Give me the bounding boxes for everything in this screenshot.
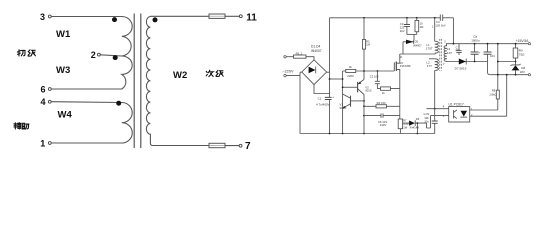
- D5 row wire: [403, 41, 414, 43]
- winding W4: [122, 103, 132, 144]
- svg-text:901A: 901A: [340, 106, 347, 110]
- svg-text:0.20: 0.20: [403, 122, 409, 126]
- svg-text:1000u: 1000u: [471, 39, 480, 43]
- T1 winding L1: [435, 41, 439, 54]
- startup bias wire: [330, 78, 343, 80]
- svg-text:11: 11: [246, 12, 257, 23]
- svg-text:7: 7: [443, 62, 445, 66]
- junction dot emitter column: [506, 74, 508, 76]
- svg-text:230V: 230V: [380, 123, 387, 127]
- svg-text:1: 1: [432, 25, 434, 29]
- L2 top stub: [429, 58, 435, 60]
- capacitor C10a plates: [432, 121, 438, 123]
- V3 collector with arrow: [358, 80, 364, 85]
- svg-text:1k: 1k: [382, 91, 386, 95]
- svg-text:6: 6: [40, 85, 45, 95]
- secondary top rail: [446, 43, 528, 45]
- svg-text:75Ω: 75Ω: [519, 52, 525, 56]
- L3 top stub: [446, 44, 448, 46]
- wire to pin7 terminal: [225, 145, 239, 147]
- junction dot rail D6: [417, 133, 419, 135]
- wire bridge minus drop: [299, 76, 301, 134]
- C8 row: [364, 115, 400, 117]
- junction dot D6: [417, 122, 419, 124]
- transistor V1 base bar: [350, 96, 352, 107]
- resistor R6: [381, 87, 391, 90]
- svg-text:+15V.5A: +15V.5A: [516, 39, 530, 43]
- junction dot R9 top: [515, 43, 517, 45]
- polarity dot W1: [112, 17, 117, 22]
- B+ riser / C1 column: [329, 18, 331, 134]
- C2 drop and R6 row: [377, 71, 399, 89]
- junction dot bus R5: [416, 17, 418, 19]
- gate row wire: [343, 70, 395, 72]
- svg-text:1.8kΩ: 1.8kΩ: [489, 92, 496, 96]
- bus C4 right segment: [443, 17, 454, 19]
- diode D7: [459, 59, 466, 65]
- svg-text:2200: 2200: [347, 74, 354, 78]
- svg-text:D: D: [400, 55, 402, 59]
- junction dot zener wire: [497, 61, 499, 63]
- C10 filter column: [488, 44, 491, 75]
- svg-text:7: 7: [245, 141, 251, 152]
- R2 column: [363, 18, 365, 80]
- opto pin1 wire: [470, 109, 498, 111]
- wire W2 bottom to pin7: [153, 145, 209, 147]
- resistor R7: [398, 119, 402, 129]
- junction dot V1 base row: [363, 100, 365, 102]
- svg-text:103 1kV: 103 1kV: [435, 24, 445, 28]
- svg-text:+: +: [332, 95, 334, 99]
- svg-text:R4 150: R4 150: [377, 101, 386, 105]
- junction dot bus T1: [434, 17, 436, 19]
- wire pin3 to W1: [51, 16, 122, 18]
- junction dot C8 row: [363, 115, 365, 117]
- junction dot D8: [515, 74, 517, 76]
- capacitor C2 plates: [375, 81, 380, 83]
- label 辅助: [14, 123, 29, 129]
- svg-text:C2 102: C2 102: [370, 75, 379, 79]
- label 次级: [206, 70, 223, 76]
- junction dot pin4: [434, 108, 436, 110]
- svg-text:D6: D6: [416, 117, 420, 121]
- junction dot C10 top: [487, 43, 489, 45]
- clamp C3 column: [406, 18, 408, 35]
- svg-text:2kV: 2kV: [400, 29, 405, 33]
- svg-text:~220V: ~220V: [282, 69, 294, 73]
- junction dot startup right: [342, 78, 344, 80]
- AC input terminal L: [284, 56, 286, 58]
- svg-text:4.7u/400V: 4.7u/400V: [316, 102, 330, 106]
- svg-text:W4: W4: [58, 109, 73, 120]
- capacitor C6 column: [458, 44, 460, 55]
- core line right: [140, 14, 142, 148]
- opto feedback column: [497, 44, 499, 110]
- junction dot bus C3: [406, 17, 408, 19]
- C4 coupling plates: [440, 15, 442, 21]
- C9 column: [474, 44, 476, 62]
- optocoupler U1 box: [449, 107, 470, 123]
- svg-text:18V: 18V: [520, 70, 525, 74]
- polarity dot W3: [113, 55, 118, 60]
- svg-text:+: +: [479, 50, 481, 54]
- R9 column: [515, 44, 517, 65]
- svg-text:3k: 3k: [349, 65, 352, 69]
- AC input terminal N: [284, 74, 286, 76]
- wire pin1: [51, 142, 122, 144]
- svg-text:14T: 14T: [447, 51, 452, 55]
- winding W3: [122, 56, 132, 89]
- svg-text:1W: 1W: [403, 125, 407, 129]
- wire pin2 tap: [100, 55, 122, 56]
- svg-text:103: 103: [455, 48, 460, 52]
- wire input to bridge left: [286, 72, 302, 75]
- resistor R2: [362, 40, 365, 50]
- winding W1: [122, 17, 132, 57]
- pin 2 terminal: [98, 53, 101, 56]
- R4a row: [364, 105, 400, 107]
- clamp to D5: [413, 34, 415, 39]
- transistor V3 base bar: [357, 82, 359, 93]
- polarity dot W4: [116, 101, 121, 106]
- capacitor C1 plates: [325, 97, 332, 99]
- svg-text:9013: 9013: [365, 89, 372, 93]
- junction dot zener top: [515, 61, 517, 63]
- resistor R1: [294, 55, 307, 58]
- capacitor C8 plates: [381, 114, 383, 118]
- wire pin4: [51, 101, 122, 104]
- D8 to rail: [515, 70, 517, 74]
- ferrite bead resistor at pin 11: [209, 14, 225, 18]
- V3 base wire: [343, 86, 358, 88]
- L3 bottom stub: [446, 60, 448, 62]
- wire bridge bottom jog: [314, 85, 330, 94]
- svg-text:2: 2: [444, 40, 446, 44]
- pin 4 terminal: [48, 100, 51, 103]
- bottom primary rail: [300, 133, 435, 135]
- opto LED: [461, 111, 468, 117]
- opto emitter column: [506, 75, 508, 117]
- capacitor C9 plates: [471, 52, 479, 54]
- V1 emitter with arrow: [343, 104, 351, 108]
- svg-text:1: 1: [40, 138, 45, 148]
- svg-text:W3: W3: [56, 65, 70, 76]
- diode D6: [409, 121, 415, 126]
- C4 riser to secondary: [452, 18, 454, 44]
- bridge inner diode: [309, 67, 316, 74]
- resistor R4a: [376, 105, 386, 108]
- svg-text:104: 104: [490, 54, 495, 58]
- output minus terminal: [528, 74, 530, 76]
- polarity dot W2: [153, 17, 158, 22]
- MOSFET source lead: [396, 69, 400, 119]
- svg-text:1M: 1M: [420, 25, 425, 29]
- junction dot bus R2: [363, 17, 365, 19]
- V1 base wire: [351, 100, 365, 102]
- svg-text:D7 5819: D7 5819: [455, 67, 467, 71]
- svg-text:W2: W2: [173, 70, 187, 81]
- svg-text:IN4007: IN4007: [311, 49, 322, 53]
- wire pin6: [51, 88, 122, 90]
- junction dot C9 top: [474, 43, 476, 45]
- wire input to R1: [286, 56, 293, 58]
- clamp R5 column: [416, 18, 418, 35]
- svg-text:4: 4: [40, 97, 45, 107]
- resistor R9: [513, 48, 518, 58]
- svg-text:170T: 170T: [426, 46, 433, 50]
- transformer T1 L1 riser: [434, 18, 436, 41]
- svg-text:W1: W1: [56, 29, 71, 40]
- junction dot rail C4 riser: [453, 43, 455, 45]
- pin 6 terminal: [48, 88, 51, 91]
- pin 11 terminal: [239, 15, 242, 18]
- zener top wire: [498, 61, 516, 63]
- core line left: [133, 14, 135, 148]
- diode D5: [406, 40, 413, 44]
- junction dot column top: [497, 43, 499, 45]
- wire R1 to bridge top: [306, 57, 314, 60]
- svg-text:2: 2: [91, 50, 96, 60]
- svg-text:4: 4: [443, 105, 445, 109]
- svg-text:U1 PC817: U1 PC817: [449, 102, 464, 106]
- svg-text:2SK1358: 2SK1358: [400, 64, 411, 68]
- opto phototransistor: [454, 110, 457, 119]
- D7 output wire: [446, 61, 487, 63]
- svg-text:D5: D5: [415, 39, 419, 43]
- D6 ground stub: [416, 123, 418, 133]
- svg-text:3: 3: [40, 12, 45, 22]
- left column V1: [342, 71, 344, 134]
- svg-text:IN4007: IN4007: [413, 44, 422, 48]
- wire W2 top to pin11: [150, 15, 209, 17]
- T1 winding L2: [435, 59, 439, 71]
- MOSFET V2 channel bar: [395, 61, 397, 71]
- opto pin3 wire: [427, 116, 449, 128]
- T1 core dashed: [440, 39, 442, 71]
- svg-text:17T: 17T: [427, 64, 432, 68]
- opto pin2 wire: [470, 115, 507, 117]
- winding W2: [146, 17, 153, 146]
- V3 emitter column: [363, 95, 365, 134]
- V3 emitter: [358, 89, 364, 95]
- svg-text:R7: R7: [403, 119, 407, 123]
- svg-text:R1 1: R1 1: [296, 51, 303, 55]
- pin 3 terminal: [48, 15, 51, 18]
- junction dot rail C1: [329, 133, 331, 135]
- svg-text:IN4148: IN4148: [410, 126, 420, 130]
- junction dot gate/R2: [363, 70, 365, 72]
- svg-text:C1: C1: [318, 96, 322, 100]
- secondary bottom rail: [490, 74, 528, 76]
- junction dot startup left: [329, 78, 331, 80]
- resistor R5: [415, 20, 419, 31]
- MOSFET V2 gate bar: [393, 62, 395, 71]
- junction dot R4a row: [363, 105, 365, 107]
- D6 row wire: [403, 123, 427, 128]
- output plus terminal: [528, 43, 530, 45]
- capacitor C3 plates: [404, 25, 410, 27]
- clamp bottom wire: [407, 33, 417, 35]
- svg-text:1M: 1M: [366, 43, 370, 47]
- top B+ bus: [330, 17, 441, 19]
- ferrite bead resistor at pin 7: [209, 143, 225, 147]
- drain node wire: [400, 42, 435, 54]
- junction dot V3 base: [342, 86, 344, 88]
- opto pin4 wire: [427, 108, 449, 110]
- label 初级: [17, 50, 35, 56]
- zener D8: [512, 65, 520, 70]
- T1 winding L3: [444, 46, 447, 62]
- MOSFET drain lead: [396, 54, 400, 63]
- pin 1 terminal: [48, 142, 51, 145]
- junction dot rail V3: [363, 133, 365, 135]
- resistor R8: [496, 90, 499, 99]
- junction dot gate/C2: [377, 70, 379, 72]
- aux column from L2: [434, 70, 436, 133]
- junction dot column rail: [497, 74, 499, 76]
- pin 7 terminal: [239, 144, 242, 147]
- capacitor C6 plates: [456, 51, 461, 53]
- R7 to rail: [399, 129, 401, 134]
- wire to pin11 terminal: [225, 15, 239, 17]
- resistor R4: [346, 69, 356, 72]
- V1 collector: [343, 94, 351, 98]
- junction dot C9 bottom: [474, 61, 476, 63]
- junction dot rail V1: [342, 133, 344, 135]
- bridge rectifier D1-D4 diamond: [302, 60, 327, 85]
- wire bridge plus to riser: [327, 71, 330, 73]
- capacitor C10 plates: [484, 52, 492, 54]
